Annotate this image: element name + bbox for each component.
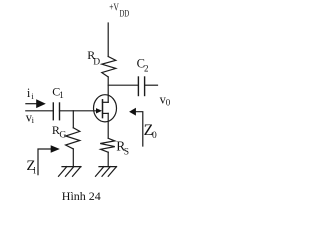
- svg-text:i: i: [32, 115, 35, 125]
- svg-text:Hình 24: Hình 24: [62, 191, 101, 203]
- svg-text:0: 0: [152, 131, 157, 141]
- svg-text:S: S: [124, 147, 129, 157]
- svg-text:1: 1: [59, 90, 64, 100]
- svg-text:i: i: [33, 166, 36, 176]
- svg-text:G: G: [59, 131, 66, 141]
- svg-text:i: i: [31, 91, 34, 101]
- svg-text:DD: DD: [120, 8, 130, 18]
- svg-text:0: 0: [166, 97, 171, 107]
- svg-text:D: D: [93, 57, 100, 67]
- svg-text:+V: +V: [109, 2, 119, 13]
- svg-text:2: 2: [144, 63, 149, 73]
- svg-text:i: i: [27, 86, 31, 100]
